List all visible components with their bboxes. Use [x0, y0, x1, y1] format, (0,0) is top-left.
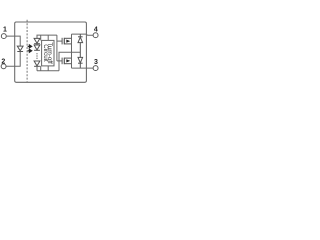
svg-text:4: 4 — [94, 27, 98, 34]
photodiode PD1 — [34, 38, 40, 43]
svg-text:1: 1 — [3, 26, 7, 33]
isolation dashed line — [26, 20, 28, 82]
svg-text:2: 2 — [1, 58, 5, 65]
source return wire — [59, 52, 80, 71]
bottom wire to source bus — [37, 70, 59, 72]
light arrow b — [28, 49, 32, 52]
stub box top — [47, 35, 49, 40]
drain-source rail — [71, 34, 73, 68]
terminal 3 — [93, 66, 98, 71]
top output rail to pin4 — [72, 34, 94, 35]
node: wire photodiode stack top to gate bus — [37, 35, 57, 38]
terminal 2 — [1, 64, 6, 69]
box left-edge riser top — [40, 35, 42, 40]
gate tap Q1 — [57, 40, 62, 42]
MOSFET Q2 — [62, 58, 71, 65]
terminal 4 — [93, 33, 98, 38]
body diode DB2 — [78, 57, 83, 68]
svg-text:Circuit: Circuit — [42, 44, 49, 62]
gate tap Q2 — [57, 60, 62, 62]
wire stack cathode down — [36, 66, 38, 71]
wire pin1 to LED anode — [6, 36, 20, 46]
gate bus — [56, 35, 58, 61]
stub box bottom — [47, 66, 49, 71]
ellipsis dots — [36, 53, 37, 59]
package outline — [15, 22, 87, 82]
light arrow a — [28, 45, 32, 48]
terminal 1 — [1, 34, 6, 39]
wire LED cathode to pin2 — [6, 52, 20, 67]
bottom output rail to pin3 — [72, 67, 94, 69]
turn-off circuit label — [42, 42, 53, 64]
pin labels — [1, 26, 98, 66]
photodiode PD2 — [34, 45, 40, 50]
wire — [36, 44, 38, 45]
body diode DB1 — [78, 34, 83, 57]
LED D1 — [17, 46, 23, 51]
turn-off circuit box U1 — [42, 40, 54, 66]
MOSFET Q1 — [62, 38, 71, 45]
box left-edge riser bottom — [40, 66, 42, 71]
svg-text:3: 3 — [94, 59, 98, 66]
photodiode PDn — [34, 61, 40, 66]
